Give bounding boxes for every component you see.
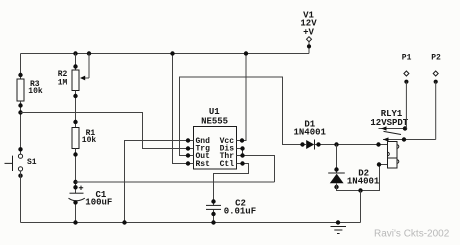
relay contact NO row <box>383 139 436 141</box>
svg-text:10k: 10k <box>82 136 97 145</box>
junction trigger row left <box>18 110 22 114</box>
wire V1 supply stem <box>308 42 310 54</box>
junction P1 contact <box>403 126 407 130</box>
relay coil RLY1 <box>388 142 399 169</box>
V1 terminal diamond <box>307 37 312 42</box>
junction S1 top pin <box>18 147 22 151</box>
U1 pin labels left <box>196 137 211 169</box>
potentiometer R2 <box>72 70 79 91</box>
svg-text:Rst: Rst <box>196 160 211 169</box>
wire Thr pin to threshold row <box>237 156 275 183</box>
wire R2 bottom to R1 top <box>75 91 77 128</box>
wire D2 anode to coil bottom <box>337 165 388 191</box>
junction R1 top pin <box>73 120 77 124</box>
junction Dis pin <box>240 146 244 150</box>
junction Rst pin <box>186 161 190 165</box>
svg-text:P2: P2 <box>431 54 441 63</box>
diode D1 <box>306 140 314 150</box>
U1 pin labels right <box>220 137 235 169</box>
junction R2 top on rail <box>73 51 77 55</box>
junction Vcc on rail <box>244 51 248 55</box>
wire Gnd pin to ground rail <box>125 141 194 223</box>
junction Gnd pin <box>186 138 190 142</box>
junction S1 bottom pin <box>18 174 22 178</box>
svg-text:Ravi's Ckts-2002: Ravi's Ckts-2002 <box>374 228 450 239</box>
wire S1 to ground rail <box>20 171 22 223</box>
wire threshold row <box>76 181 275 183</box>
R2 value label <box>58 70 68 88</box>
C2 value label <box>224 199 256 217</box>
op-amp U1 NE555 box <box>194 127 237 170</box>
junction ground branch node <box>358 188 362 192</box>
switch S1 <box>5 154 23 171</box>
junction R1 bottom pin <box>73 152 77 156</box>
junction D1 cathode pin <box>316 142 320 146</box>
wire C2 bottom to ground rail <box>213 210 215 223</box>
junction Vcc pin <box>240 138 244 142</box>
junction R2 wiper on rail <box>87 51 91 55</box>
junction R2 bottom pin <box>73 94 77 98</box>
junction D1 anode pin <box>300 142 304 146</box>
junction Gnd wire on ground rail <box>122 220 126 224</box>
junction Rst on rail <box>170 51 174 55</box>
wire Out pin to D1 anode <box>180 77 307 156</box>
wire P2 to relay contact <box>435 82 437 140</box>
wire D1 cathode to relay coil <box>315 144 388 146</box>
svg-text:1N4001: 1N4001 <box>347 176 380 186</box>
wire rail to R2 <box>75 54 77 71</box>
C1 value label <box>85 190 112 207</box>
junction C2 top pin <box>211 199 215 203</box>
wire ground branch <box>360 191 362 223</box>
junction Out pin <box>186 153 190 157</box>
junction R3 top pin <box>18 73 22 77</box>
wire left column from rail to R3 <box>20 54 22 80</box>
junction C1 top node <box>73 180 77 184</box>
junction D2 anode pin <box>334 185 338 189</box>
junction V1 pin <box>307 44 311 48</box>
junction C2 bottom pin <box>211 212 215 216</box>
junction Trg pin <box>186 146 190 150</box>
wire C1 bottom to ground rail <box>75 201 77 223</box>
junction D2 cathode pin <box>334 167 338 171</box>
R3 value label <box>28 80 43 96</box>
wire Dis to Thr link <box>237 149 243 156</box>
junction Ctl pin <box>240 161 244 165</box>
wire bottom ground rail <box>21 222 361 224</box>
D1 value label <box>294 120 327 138</box>
junction C1 on ground rail <box>73 220 77 224</box>
junction R3 bottom pin <box>18 103 22 107</box>
capacitor C2 <box>206 205 221 209</box>
svg-text:100uF: 100uF <box>85 197 112 207</box>
svg-text:12VSPDT: 12VSPDT <box>370 118 408 128</box>
wire Ctl pin to C2 <box>214 164 249 206</box>
junction D2 branch node <box>334 142 338 146</box>
junction C2 on ground rail <box>211 220 215 224</box>
D2 value label <box>347 169 380 187</box>
resistor R3 <box>17 79 24 101</box>
wire trigger row to Trg pin <box>21 113 194 149</box>
svg-text:+V: +V <box>303 27 314 37</box>
V1 label <box>300 10 317 37</box>
wire top +12V rail <box>21 53 310 55</box>
U1 label <box>201 107 228 126</box>
capacitor C1 <box>69 186 85 201</box>
relay switch arm <box>384 131 402 134</box>
svg-text:Ctl: Ctl <box>220 160 235 169</box>
R1 value label <box>82 129 97 145</box>
svg-text:1N4001: 1N4001 <box>294 128 327 138</box>
relay contact NC row <box>379 128 407 130</box>
ground symbol <box>331 220 347 233</box>
junction coil bottom pin <box>377 162 381 166</box>
junction Thr pin <box>240 153 244 157</box>
wire node to D2 cathode <box>336 145 338 174</box>
junction R2 top pin <box>73 64 77 68</box>
R2 wiper arrow <box>85 54 89 79</box>
junction C1 bottom pin <box>73 200 77 204</box>
svg-text:NE555: NE555 <box>201 116 228 126</box>
svg-text:10k: 10k <box>28 87 43 96</box>
wire Vcc pin to +12V rail <box>237 54 247 141</box>
junction C1 plus pin <box>73 185 77 189</box>
wire P1 to relay contact <box>405 82 407 129</box>
diode D2 <box>328 173 345 183</box>
svg-text:0.01uF: 0.01uF <box>224 207 256 217</box>
wire R3 bottom to S1 <box>20 101 22 154</box>
wire Rst pin to +12V rail <box>173 54 194 164</box>
relay RLY1 labels <box>370 109 408 128</box>
junction P2 contact <box>402 137 406 141</box>
resistor R1 <box>72 128 79 149</box>
svg-text:1M: 1M <box>58 79 68 88</box>
wire R1 bottom to C1 <box>75 149 77 194</box>
svg-text:P1: P1 <box>402 54 412 63</box>
junction coil top pin <box>376 142 380 146</box>
svg-text:S1: S1 <box>27 158 37 167</box>
